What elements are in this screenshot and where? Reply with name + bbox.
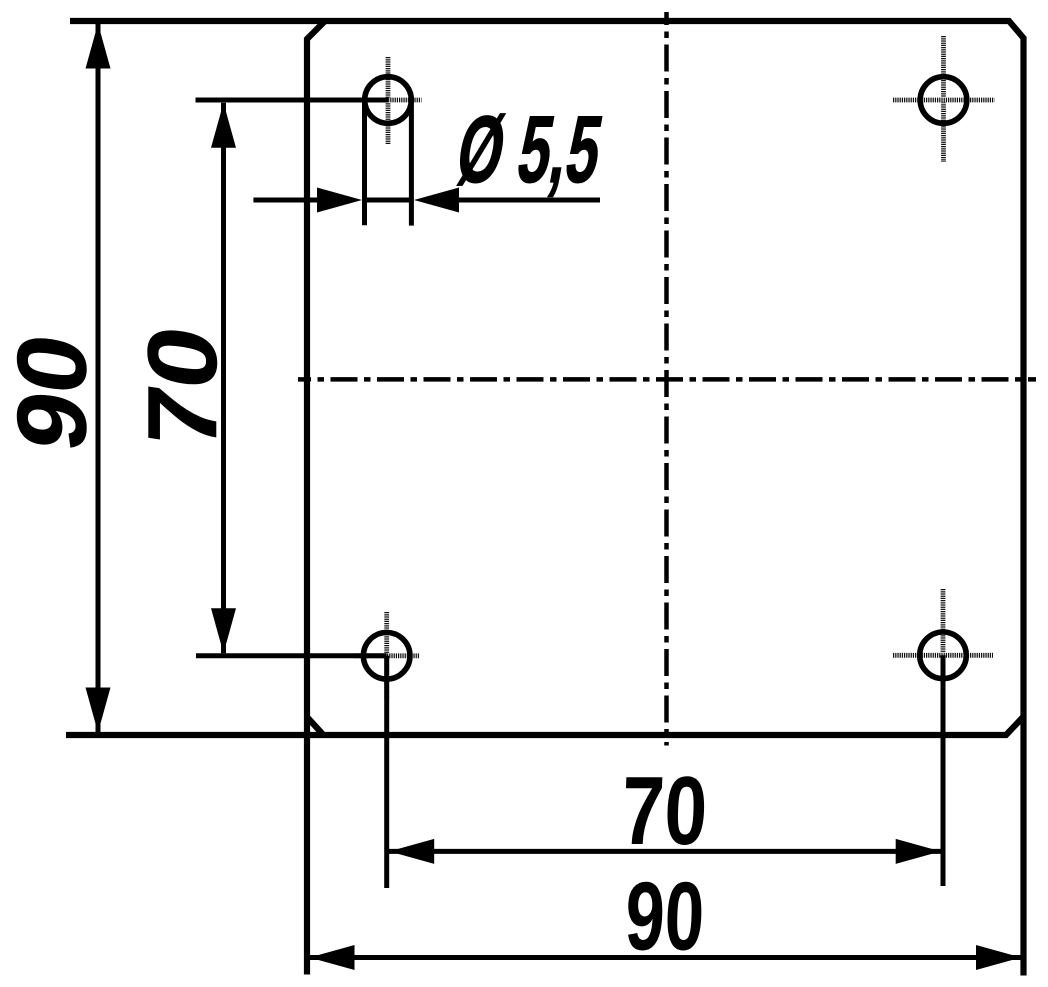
- dia 5.5 dim line middle segment: [365, 198, 412, 203]
- center mark TR hole (hatched crosshair): [893, 36, 995, 162]
- dia 5.5 extension line right (hole tangent): [409, 100, 414, 226]
- dim 70 bottom arrow right: [896, 839, 941, 864]
- svg-text:70: 70: [127, 319, 237, 456]
- hole BL: [363, 633, 410, 680]
- hole TL: [365, 77, 412, 124]
- dim 70 vertical arrow down: [211, 608, 236, 653]
- centerline horizontal (dash-dot): [298, 377, 1036, 382]
- hole TR: [920, 77, 967, 124]
- plate left edge with TL chamfer (extended down as extension line for dim 90 bottom): [307, 21, 325, 975]
- dia 5.5 arrow pointing right: [317, 188, 362, 213]
- center mark TL hole (hatched crosshair): [355, 57, 422, 144]
- dia 5.5 dim line right part: [436, 198, 600, 203]
- svg-text:Ø 5,5: Ø 5,5: [450, 96, 610, 202]
- extension line bottom hole row (dim 70 vertical): [196, 653, 387, 658]
- dim 70 bottom line: [389, 849, 941, 854]
- plate bottom edge with BR chamfer (doubles as extension line for dim 90 left): [66, 717, 1024, 736]
- dim 90 bottom arrow left: [310, 945, 355, 970]
- svg-text:70: 70: [620, 756, 709, 865]
- dim 90 vertical arrow up: [86, 24, 111, 69]
- centerline vertical (dash-dot): [664, 12, 669, 746]
- dim 90 vertical line: [96, 24, 101, 733]
- center mark BL hole (hatched crosshair): [354, 612, 420, 700]
- dia 5.5 dim line left part: [253, 198, 340, 203]
- plate chamfer bottom-left: [307, 717, 323, 735]
- svg-text:90: 90: [0, 327, 107, 457]
- extension line below BR hole (dim 70 bottom): [941, 655, 946, 886]
- dim 90 vertical arrow down: [86, 688, 111, 733]
- hole BR: [920, 632, 967, 679]
- dia 5.5 arrow pointing left: [414, 188, 459, 213]
- svg-text:90: 90: [624, 863, 707, 971]
- dim 70 bottom arrow left: [389, 839, 434, 864]
- dim 70 vertical line: [221, 103, 226, 654]
- dim 70 vertical arrow up: [211, 103, 236, 148]
- center mark BR hole (hatched crosshair): [893, 589, 993, 718]
- dim 90 bottom line: [310, 955, 1022, 960]
- dia 5.5 extension line left (hole tangent): [362, 100, 367, 225]
- extension line top hole row (dim 70 vertical): [196, 98, 389, 103]
- dim 90 bottom arrow right: [976, 945, 1021, 970]
- extension line below BL hole (dim 70 bottom): [384, 656, 389, 888]
